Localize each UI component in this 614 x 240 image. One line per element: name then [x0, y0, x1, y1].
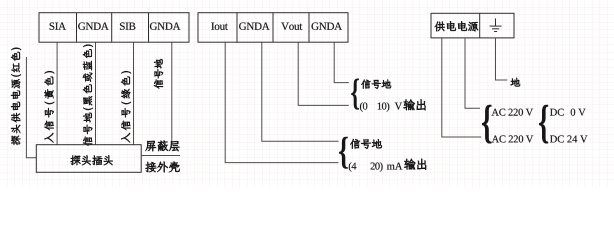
wire GNDA to probe plug — [95, 42, 97, 145]
pin label SIB — [120, 23, 135, 30]
label 输出 (V group) — [403, 99, 425, 110]
label 信号地 (V group) — [361, 80, 391, 89]
label 入信号(绿色) — [121, 71, 131, 142]
label 地 — [511, 78, 521, 87]
label DC 24 V — [550, 135, 588, 142]
label AC 220 V (lower) — [492, 135, 534, 142]
wire AC line 1 — [442, 38, 482, 137]
wire SIB to probe plug — [133, 42, 135, 145]
wire probe supply (red) to probe plug — [26, 57, 36, 158]
terminal block J1 (probe signal terminals) — [39, 13, 189, 43]
brace V output group — [351, 79, 359, 110]
label 信号地 (mA group) — [350, 139, 382, 149]
wire earth — [496, 38, 508, 80]
label 探头插头 — [71, 155, 113, 165]
terminal block J2 (output terminals) — [198, 13, 348, 43]
pin label Iout — [211, 23, 228, 30]
label 信号地(黑色或蓝色) — [83, 45, 93, 146]
wire GNDA to probe plug — [171, 42, 173, 145]
label DC 0 V — [550, 109, 586, 116]
pin label Vout — [281, 23, 302, 30]
probe plug box — [36, 145, 141, 173]
label (4 20) mA output value — [349, 162, 403, 172]
power supply block J3 — [431, 13, 514, 38]
label 信号地 — [154, 59, 163, 89]
label AC 220 V (upper) — [492, 109, 534, 116]
wire GNDA to signal ground (V group) — [334, 42, 349, 82]
pin label GNDA — [239, 23, 270, 30]
wire Vout to V output — [298, 42, 349, 105]
label 输出 (mA group) — [404, 159, 426, 170]
wire SIA to probe plug — [56, 42, 58, 145]
pin label GNDA — [78, 23, 109, 30]
label (0 10) V output value — [360, 102, 402, 112]
label 屏蔽层 — [145, 141, 179, 152]
brace AC group — [482, 105, 492, 144]
wire Iout to mA output — [225, 42, 338, 162]
brace mA output group — [339, 137, 348, 169]
label 入信号(黄色) — [44, 71, 54, 142]
pin label GNDA — [312, 23, 343, 30]
wire GNDA to signal ground (mA group) — [262, 42, 339, 141]
label 接外壳 — [145, 162, 179, 173]
label 探头供电电源(红色) — [11, 48, 21, 145]
earth ground symbol — [490, 18, 502, 31]
pin label GNDA — [150, 23, 181, 30]
pin label SIA — [50, 23, 66, 30]
brace DC group — [539, 105, 548, 144]
shield lead line — [141, 155, 180, 157]
wire AC line 2 — [465, 38, 480, 108]
label 供电电源 — [435, 21, 478, 31]
